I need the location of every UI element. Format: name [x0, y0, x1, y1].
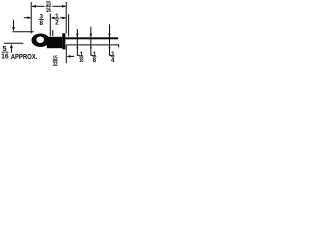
svg-text:16: 16	[46, 7, 52, 14]
svg-text:8: 8	[40, 20, 44, 27]
svg-text:16: 16	[1, 52, 9, 61]
svg-text:4: 4	[111, 57, 115, 64]
svg-text:8: 8	[93, 57, 97, 64]
svg-text:APPROX.: APPROX.	[11, 54, 38, 61]
svg-text:2: 2	[55, 20, 59, 27]
svg-text:32: 32	[53, 61, 58, 68]
svg-text:16: 16	[79, 57, 84, 64]
